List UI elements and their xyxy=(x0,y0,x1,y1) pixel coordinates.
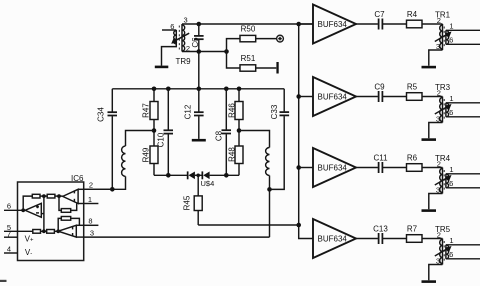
node junction C6/pin2 xyxy=(197,49,202,54)
svg-text:3: 3 xyxy=(90,228,94,237)
node junction mid top row xyxy=(42,194,46,198)
wire opamp B feedback resistor xyxy=(59,196,61,210)
transformer TR4 xyxy=(435,154,480,195)
op-amp IC6 B (top right) xyxy=(63,189,78,203)
capacitor C11 xyxy=(373,154,388,173)
svg-text:8: 8 xyxy=(88,217,92,226)
wire r5 to opamp C xyxy=(54,230,58,232)
svg-text:C9: C9 xyxy=(374,83,385,92)
resistor R50 xyxy=(240,25,256,42)
svg-text:R51: R51 xyxy=(241,54,256,63)
resistor R48 xyxy=(228,131,244,176)
capacitor C10 xyxy=(157,89,173,176)
svg-text:6: 6 xyxy=(449,36,453,45)
inductor right coil xyxy=(266,148,270,176)
diode U$4 left xyxy=(187,171,195,179)
ground TR3 xyxy=(422,138,437,141)
node junction pin6/feedback xyxy=(21,208,25,212)
wire bus to BUF1 input xyxy=(299,23,313,25)
op-amp buffer U row4 BUF634 xyxy=(313,219,356,258)
svg-text:2: 2 xyxy=(437,231,441,240)
resistor R49 xyxy=(142,131,158,176)
svg-text:3: 3 xyxy=(184,16,188,25)
wire vertical inner xyxy=(43,196,45,231)
resistor R7 xyxy=(407,225,423,243)
svg-text:BUF634: BUF634 xyxy=(318,20,348,29)
capacitor C13 xyxy=(373,225,388,244)
capacitor C33 xyxy=(270,89,290,190)
wire r6 to pin8 line xyxy=(71,218,80,225)
node junction C10/diode wire xyxy=(166,173,171,178)
wire input bus vertical xyxy=(299,24,313,239)
wire bus to BUF3 input xyxy=(299,167,313,169)
wire C13 to R7 xyxy=(382,238,406,240)
wire TR5 pin3 to ground xyxy=(429,265,443,281)
wire opamp B bottom to pin1 xyxy=(78,203,84,205)
svg-text:C10: C10 xyxy=(157,132,166,147)
svg-text:6: 6 xyxy=(449,250,453,259)
wire left coil to IC6 pin2 wire xyxy=(84,176,126,189)
node junction bus R45 wire xyxy=(296,223,301,228)
ground TR9 xyxy=(155,66,169,69)
resistor R46 xyxy=(228,89,244,131)
wire right coil bottom xyxy=(269,176,271,190)
node junction bus C10 xyxy=(166,87,171,92)
wire BUF4 output xyxy=(356,238,378,240)
wire R49 bottom to diodes xyxy=(154,174,187,176)
svg-text:C34: C34 xyxy=(97,107,106,122)
svg-text:2: 2 xyxy=(89,181,93,190)
svg-text:C13: C13 xyxy=(373,225,388,234)
resistor R45 xyxy=(183,175,203,225)
wire TR3 pin3 to ground xyxy=(429,123,443,139)
svg-text:R49: R49 xyxy=(142,147,151,162)
wire R51 to terminator xyxy=(256,67,277,69)
svg-text:1: 1 xyxy=(449,94,453,103)
resistor IC6 r4 xyxy=(33,230,41,234)
svg-text:R48: R48 xyxy=(228,147,237,162)
wire R50 to output pad xyxy=(256,38,277,40)
resistor R4 xyxy=(407,10,423,28)
op-amp IC6 A (left) xyxy=(25,203,41,217)
transformer TR3 xyxy=(435,83,480,124)
node junction diode mid xyxy=(196,174,200,178)
wire R7 to TR5 xyxy=(422,238,443,240)
wire bus to BUF2 input xyxy=(299,96,313,98)
wire opamp C bottom to pin3 xyxy=(76,236,83,238)
node junction R47/R49 xyxy=(152,128,157,133)
svg-text:BUF634: BUF634 xyxy=(318,92,348,101)
transformer TR1 xyxy=(435,11,480,52)
capacitor C8 xyxy=(215,89,231,176)
resistor IC6 r1 xyxy=(32,194,40,198)
wire R4 to TR1 xyxy=(422,23,443,25)
capacitor C12 xyxy=(184,89,204,139)
wire node to left coil xyxy=(126,131,155,147)
ground TR5 xyxy=(422,280,437,283)
wire coil node down to IC6 pin3 wire xyxy=(269,189,271,237)
wire r3 to pin1 line xyxy=(71,204,77,211)
op-amp buffer U row2 BUF634 xyxy=(313,77,356,116)
ground TR4 xyxy=(422,209,437,212)
terminator bar xyxy=(276,62,278,74)
svg-text:BUF634: BUF634 xyxy=(318,234,348,243)
svg-text:R47: R47 xyxy=(142,103,151,118)
resistor R6 xyxy=(407,154,423,172)
svg-text:6: 6 xyxy=(7,202,11,211)
svg-text:7: 7 xyxy=(7,229,11,238)
wire BUF3 output xyxy=(356,167,378,169)
wire branch up to R50 xyxy=(227,39,241,52)
svg-text:TR9: TR9 xyxy=(175,57,191,66)
svg-text:2: 2 xyxy=(437,16,441,25)
wire TR1 pin3 to ground xyxy=(429,50,443,66)
node junction bus row3 xyxy=(296,165,301,170)
wire r2 to opamp B xyxy=(55,195,63,197)
wire BUF1 output xyxy=(356,23,378,25)
capacitor C7 xyxy=(374,10,385,29)
wire r4 to r5 xyxy=(41,230,47,232)
svg-text:R46: R46 xyxy=(228,103,237,118)
pad circled plus xyxy=(277,35,284,42)
IC box IC6 xyxy=(18,182,84,261)
TR9 adjust arrow xyxy=(171,33,189,44)
capacitor C6 xyxy=(191,24,204,52)
svg-text:1: 1 xyxy=(88,195,92,204)
ground TR1 xyxy=(422,66,437,69)
diode U$4 right xyxy=(202,171,210,179)
node junction bus row1 xyxy=(296,22,301,27)
svg-text:1: 1 xyxy=(449,236,453,245)
node junction C8/diode wire xyxy=(224,173,229,178)
capacitor C34 xyxy=(97,89,118,190)
inductor left coil xyxy=(122,146,126,176)
transformer TR9 xyxy=(170,16,191,67)
node junction opamp C input xyxy=(56,229,60,233)
wire TR9 left winding to ground xyxy=(162,44,177,66)
svg-text:C8: C8 xyxy=(215,130,224,141)
svg-text:1: 1 xyxy=(449,165,453,174)
wire C6 column down to filter bus xyxy=(198,52,200,89)
wire between diodes xyxy=(195,174,202,176)
node junction bus R47 xyxy=(152,87,157,92)
wire IC6 pin2 xyxy=(84,188,113,190)
svg-text:1: 1 xyxy=(449,22,453,31)
node junction R46/R48 xyxy=(237,128,242,133)
node junction coil/C33 xyxy=(267,187,272,192)
wire diode to R48 bottom xyxy=(210,174,239,176)
node junction bus C12 xyxy=(197,87,202,92)
wire R45 bottom to bus xyxy=(198,224,299,226)
node junction bus C8 xyxy=(224,87,229,92)
wire IC6 pin5 into chain xyxy=(4,230,33,232)
wire C11 to R6 xyxy=(382,167,406,169)
svg-text:2: 2 xyxy=(437,160,441,169)
svg-text:R45: R45 xyxy=(183,195,192,210)
wire stub to opamp A inverting input xyxy=(41,213,44,215)
svg-text:C33: C33 xyxy=(270,104,279,119)
wire branch down to R51 xyxy=(227,52,241,69)
wire TR9 pin6 stub xyxy=(162,29,176,31)
svg-text:C7: C7 xyxy=(374,10,385,19)
wire R6 to TR4 xyxy=(422,167,443,169)
wire TR9 pin3 to BUF bus (row1) xyxy=(182,23,313,25)
svg-text:R50: R50 xyxy=(241,25,256,34)
wire r1 to r2 xyxy=(40,195,47,197)
node junction bottom row xyxy=(42,229,46,233)
wire feedback up xyxy=(23,196,32,210)
svg-text:R4: R4 xyxy=(407,10,418,19)
wire opamp C top to pin8 xyxy=(76,224,83,226)
resistor R47 xyxy=(142,89,158,131)
wire C7 to R4 xyxy=(382,23,406,25)
transformer TR5 xyxy=(435,225,480,266)
wire IC6 pin6 stub xyxy=(4,209,25,211)
wire IC6 pin4 stub xyxy=(4,252,18,254)
wire node to right coil xyxy=(239,131,270,148)
svg-text:2: 2 xyxy=(437,89,441,98)
resistor IC6 r5 xyxy=(47,230,55,234)
resistor IC6 r3 xyxy=(61,209,70,213)
node junction C34/pin2 wire xyxy=(110,187,115,192)
svg-text:IC6: IC6 xyxy=(71,174,84,183)
svg-text:6: 6 xyxy=(449,108,453,117)
wire R5 to TR3 xyxy=(422,96,443,98)
svg-text:C12: C12 xyxy=(184,104,193,119)
ground C12 xyxy=(192,139,206,142)
svg-text:R7: R7 xyxy=(407,225,418,234)
svg-text:6: 6 xyxy=(449,179,453,188)
node junction R50/R51 branch xyxy=(224,49,229,54)
wire IC6 pin3 xyxy=(84,236,270,238)
svg-text:R5: R5 xyxy=(407,83,418,92)
wire filter top bus xyxy=(112,88,284,90)
wire IC6 pin1 stub xyxy=(84,203,99,205)
svg-text:U$4: U$4 xyxy=(201,179,215,188)
wire C9 to R5 xyxy=(382,96,406,98)
wire opamp C feedback up xyxy=(58,218,61,231)
svg-text:4: 4 xyxy=(7,245,11,254)
node junction bus row2 xyxy=(296,94,301,99)
node junction row1/C6 xyxy=(197,22,202,27)
svg-text:C6: C6 xyxy=(191,37,200,48)
resistor IC6 r2 xyxy=(47,194,55,198)
node junction bus R46 xyxy=(237,87,242,92)
op-amp IC6 C (bottom right) xyxy=(58,225,76,237)
wire TR4 pin3 to ground xyxy=(429,194,443,210)
resistor IC6 r6 xyxy=(61,217,70,221)
op-amp buffer U row3 BUF634 xyxy=(313,148,356,187)
resistor R51 xyxy=(240,54,256,71)
node junction fb branch xyxy=(57,194,61,198)
wire BUF2 output xyxy=(356,96,378,98)
wire IC6 pin7 stub xyxy=(4,236,18,238)
resistor R5 xyxy=(407,83,423,101)
wire IC6 pin8 stub xyxy=(84,224,99,226)
wire opamp B top to pin2 xyxy=(78,188,84,190)
svg-text:R6: R6 xyxy=(407,154,418,163)
op-amp buffer U row1 BUF634 xyxy=(313,5,356,44)
capacitor C9 xyxy=(374,83,385,102)
svg-text:C11: C11 xyxy=(373,154,388,163)
wire TR9 pin2 line xyxy=(182,51,227,53)
artifact dash bottom left xyxy=(0,280,7,282)
svg-text:BUF634: BUF634 xyxy=(318,163,348,172)
